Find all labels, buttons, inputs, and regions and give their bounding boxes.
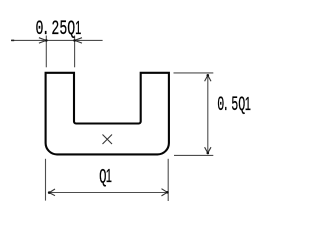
svg-text:1: 1: [245, 94, 251, 114]
svg-text:1: 1: [75, 18, 81, 38]
svg-text:1: 1: [106, 167, 112, 187]
svg-text:0.25Q: 0.25Q: [36, 19, 76, 41]
svg-text:0.5Q: 0.5Q: [217, 93, 245, 116]
